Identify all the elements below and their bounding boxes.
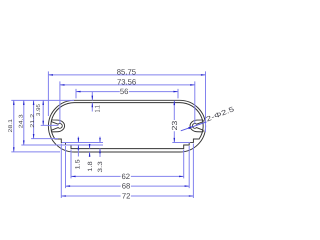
dimension 21.2 (30, 100, 58, 138)
svg-text:68: 68 (122, 182, 131, 191)
svg-text:1.8: 1.8 (87, 161, 94, 172)
dims 1.5 / 1.8 / 3.3 (bottom wall details) (62, 137, 104, 173)
2-PHI2.5 leader and label (181, 106, 236, 131)
dimension 24.3 (18, 100, 103, 145)
dimension 3.95 (36, 100, 59, 125)
dimension 72 (61, 144, 193, 201)
dimension 23 (right) (170, 101, 190, 143)
svg-text:1.5: 1.5 (74, 159, 81, 170)
svg-text:3.95: 3.95 (36, 104, 42, 116)
dimension 85.75 (top) (48, 67, 205, 132)
svg-text:72: 72 (122, 192, 131, 201)
svg-text:24.3: 24.3 (18, 114, 24, 128)
dimension 68 (66, 146, 190, 191)
svg-text:28.1: 28.1 (8, 119, 14, 133)
dimension 28.1 (left) (8, 100, 74, 151)
outer profile outline (48, 100, 205, 152)
svg-text:62: 62 (122, 172, 131, 181)
dimension 56 (76, 87, 178, 98)
dimension 62 (71, 150, 184, 181)
left screw boss (51, 120, 64, 132)
dimension 1.1 (top wall) (92, 92, 102, 113)
dimension 73.56 (60, 77, 195, 123)
right screw boss (190, 120, 203, 132)
svg-text:56: 56 (120, 87, 129, 96)
svg-text:23: 23 (170, 121, 179, 131)
svg-text:1.1: 1.1 (95, 105, 102, 112)
svg-text:3.3: 3.3 (97, 161, 104, 173)
inner profile wall with bottom groove staircase (51, 103, 203, 149)
svg-text:85.75: 85.75 (117, 67, 136, 76)
svg-text:73.56: 73.56 (117, 77, 136, 86)
